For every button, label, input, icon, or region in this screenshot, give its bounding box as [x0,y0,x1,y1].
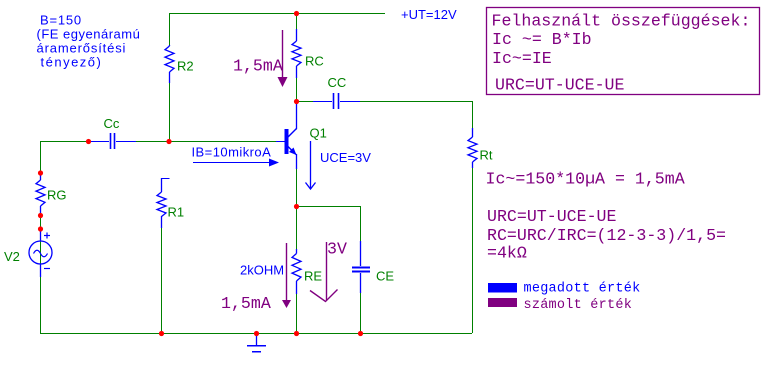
label Q1 [310,126,327,141]
label +UT=12V [401,7,457,22]
svg-text:megadott érték: megadott érték [524,281,641,296]
formula box [487,8,760,95]
arrow IC current [278,30,288,87]
wire CC output row [296,101,472,103]
wire CE column [360,206,362,333]
wire base row [40,141,285,143]
node base divider [166,139,171,144]
label 1,5mA collector [233,57,283,76]
label V2 [4,249,20,264]
capacitor CE [352,241,370,293]
node V2 plus [38,226,43,231]
svg-text:RC=URC/IRC=(12-3-3)/1,5=: RC=URC/IRC=(12-3-3)/1,5= [487,226,726,245]
formula URC [487,207,616,226]
node RE ground [294,331,299,336]
svg-text:URC=UT-UCE-UE: URC=UT-UCE-UE [487,207,616,226]
svg-text:(FE egyenáramú: (FE egyenáramú [37,27,141,42]
capacitor CC output [313,93,360,109]
svg-text:R2: R2 [177,59,194,74]
node R1 ground [159,331,164,336]
label 2kOHM [240,263,284,278]
resistor RC [292,29,301,78]
svg-text:CE: CE [376,269,394,284]
svg-text:=4kΩ: =4kΩ [487,244,527,263]
svg-text:Ic ~= B*Ib: Ic ~= B*Ib [492,30,592,49]
label UCE=3V [320,150,371,165]
label R2 [177,59,194,74]
svg-text:V2: V2 [4,249,20,264]
svg-text:IB=10mikroA: IB=10mikroA [192,145,272,160]
node RG top [38,170,43,175]
svg-text:Rt: Rt [480,148,493,163]
label RG [47,188,67,203]
svg-text:RG: RG [47,188,67,203]
resistor RG [36,174,45,215]
wire R2 column [169,13,171,141]
wire ground bus [40,333,472,335]
wire RC collector column [296,13,298,206]
svg-text:tényező): tényező) [41,55,103,70]
legend computed value [488,298,632,313]
svg-text:+UT=12V: +UT=12V [401,7,457,22]
formula Ic result [486,170,685,189]
resistor RE [292,249,301,294]
svg-text:Ic~=150*10µA = 1,5mA: Ic~=150*10µA = 1,5mA [486,170,685,189]
wire Rt column [472,101,474,333]
label CC [328,75,347,90]
node RG bottom [38,213,43,218]
wire RE emitter column [296,206,298,333]
arrow IB base current [193,159,279,167]
svg-text:számolt érték: számolt érték [524,298,633,313]
label 1,5mA emitter [221,294,271,313]
formula 4k [487,244,527,263]
label RC [305,54,324,69]
ground [247,334,266,352]
label Cc [104,116,120,131]
svg-text:Q1: Q1 [310,126,327,141]
node top bus [294,11,299,16]
svg-text:Ic~=IE: Ic~=IE [492,49,552,68]
label B=150 block [37,13,141,70]
label 3V [327,240,347,259]
transistor Q1 [276,101,297,169]
arrow IE current [282,243,291,308]
svg-text:RC: RC [305,54,324,69]
formula box text [492,11,751,94]
resistor Rt [468,128,477,168]
wire top supply bus [169,13,385,15]
svg-text:CC: CC [328,75,347,90]
label CE [376,269,394,284]
node CE ground [358,331,363,336]
resistor R2 [165,45,174,83]
label RE [304,269,322,284]
node ground stub [254,331,259,336]
capacitor Cc input [91,133,136,149]
svg-text:Felhasznált összefüggések:: Felhasznált összefüggések: [492,11,751,30]
legend given value [488,281,640,296]
wire R1 column [161,178,163,333]
svg-text:1,5mA: 1,5mA [233,57,283,76]
formula RC [487,226,726,245]
svg-text:UCE=3V: UCE=3V [320,150,371,165]
wire emitter node row [296,206,360,208]
label IB=10mikroA [192,145,272,160]
voltage source V2 [29,229,52,277]
svg-text:áramerősítési: áramerősítési [37,41,127,56]
svg-text:URC=UT-UCE-UE: URC=UT-UCE-UE [495,76,624,95]
svg-text:R1: R1 [168,205,185,220]
wire left input column [40,141,42,333]
svg-text:1,5mA: 1,5mA [221,294,271,313]
arrow UE 3V [310,242,338,302]
svg-text:2kOHM: 2kOHM [240,263,284,278]
arrow UCE [306,141,316,189]
node collector [294,99,299,104]
label R1 [168,205,185,220]
node emitter [294,204,299,209]
resistor R1 [157,178,170,228]
svg-text:Cc: Cc [104,116,120,131]
label Rt [480,148,493,163]
svg-text:B=150: B=150 [40,13,82,28]
svg-text:3V: 3V [327,240,347,259]
node input left [86,139,91,144]
svg-text:RE: RE [304,269,322,284]
